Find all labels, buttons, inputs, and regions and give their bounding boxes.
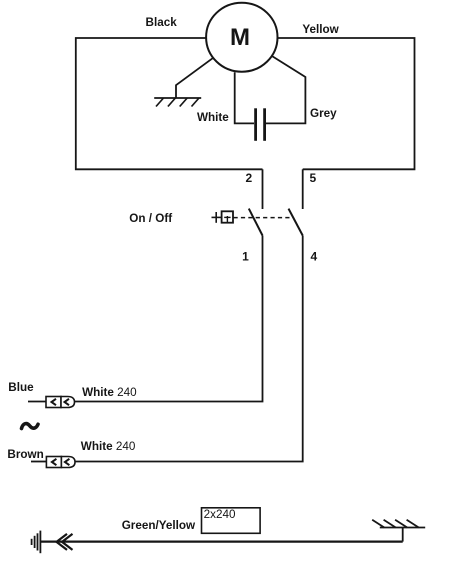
switch actuator [212, 211, 234, 223]
wire: motor to earth [176, 58, 213, 98]
switch linkage (dashed) [234, 217, 294, 219]
wire: terminal 5 drop [302, 169, 304, 209]
switch S1 pole B blade [289, 209, 303, 236]
wire: terminal 2 drop [262, 169, 264, 209]
svg-text:Grey: Grey [310, 107, 337, 120]
svg-text:2x240: 2x240 [204, 508, 236, 521]
wire: switch pole A to blue line [75, 236, 263, 402]
wire: yellow lead from motor, right side and bottom-right of loop [278, 38, 415, 169]
svg-text:On / Off: On / Off [129, 212, 172, 225]
wire: black lead from motor, left side and bottom-left of loop [76, 38, 263, 169]
AC source symbol ~ [22, 424, 39, 429]
svg-text:Yellow: Yellow [302, 23, 339, 36]
ground (earth under motor) [154, 98, 201, 107]
wire: capacitor right to motor (grey lead) [266, 56, 305, 123]
earth (left, rotated bars) [32, 531, 41, 554]
svg-text:Black: Black [146, 16, 178, 29]
svg-text:5: 5 [309, 171, 316, 185]
wire: brown stub [31, 461, 46, 463]
wire: riser to right earth [402, 528, 404, 542]
wire: motor bottom to capacitor left [235, 72, 254, 123]
svg-text:M: M [230, 24, 250, 51]
cable spec box 2x240 [202, 508, 261, 534]
svg-text:Brown: Brown [7, 448, 43, 461]
ground (earth bottom right) [372, 520, 425, 528]
svg-text:White 240: White 240 [82, 386, 137, 399]
svg-text:2: 2 [245, 171, 252, 185]
svg-text:White: White [197, 111, 229, 124]
capacitor C1 [256, 108, 265, 141]
svg-text:1: 1 [242, 249, 249, 263]
svg-text:Green/Yellow: Green/Yellow [122, 519, 196, 532]
motor M1 [206, 3, 277, 72]
wire: switch pole B to brown line [76, 236, 303, 462]
svg-text:4: 4 [311, 249, 318, 263]
svg-text:Blue: Blue [8, 381, 34, 394]
strain relief chevrons [57, 534, 73, 550]
svg-text:White 240: White 240 [81, 440, 136, 453]
connector J1 (blue) [46, 397, 75, 408]
switch S1 pole A blade [249, 209, 263, 236]
wire: green/yellow earth conductor [40, 540, 402, 542]
wire: blue stub [28, 401, 46, 403]
connector J2 (brown) [46, 457, 75, 468]
